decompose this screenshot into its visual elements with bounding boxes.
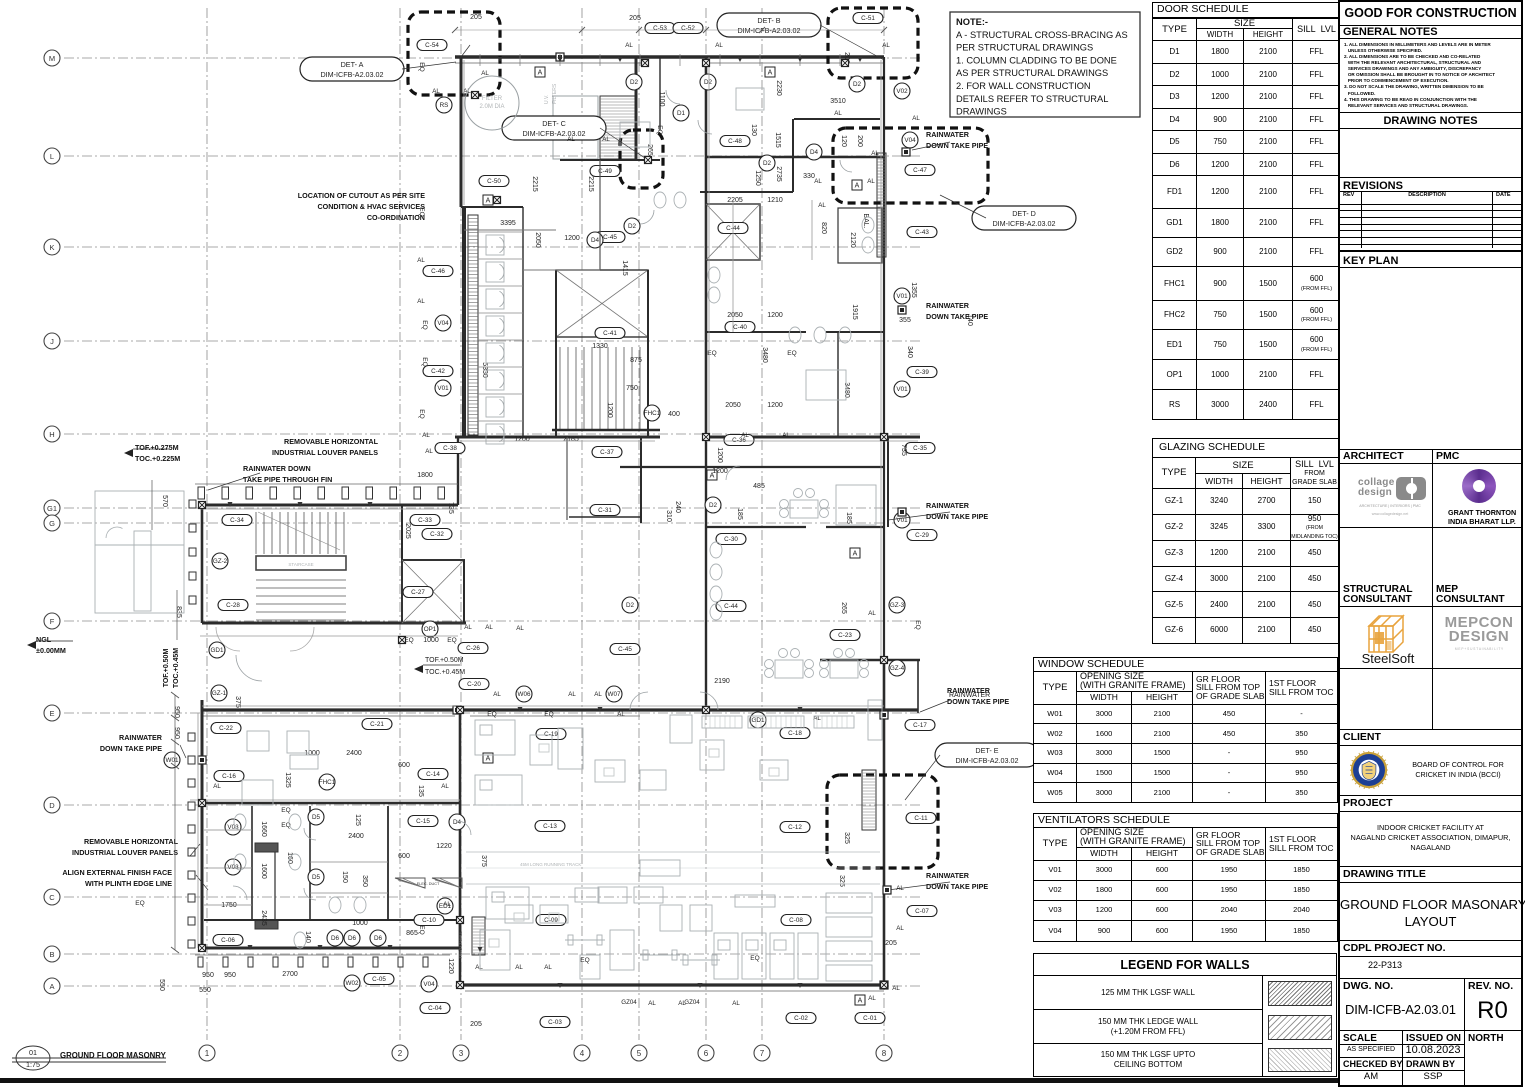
svg-text:AL: AL xyxy=(443,901,451,908)
svg-text:EQ: EQ xyxy=(281,807,290,814)
svg-text:RAINWATER: RAINWATER xyxy=(926,130,970,139)
svg-text:1600: 1600 xyxy=(260,863,267,879)
svg-text:K: K xyxy=(49,243,54,252)
svg-text:2: 2 xyxy=(398,1049,403,1058)
svg-text:U.V.: U.V. xyxy=(544,95,550,104)
svg-text:325: 325 xyxy=(843,832,850,844)
svg-text:DOWN TAKE PIPE: DOWN TAKE PIPE xyxy=(947,697,1009,706)
svg-text:GROUND FLOOR MASONRY: GROUND FLOOR MASONRY xyxy=(60,1051,167,1060)
svg-text:C-16: C-16 xyxy=(222,773,236,780)
svg-text:2435: 2435 xyxy=(260,910,267,926)
svg-text:375: 375 xyxy=(480,855,487,867)
svg-text:C-38: C-38 xyxy=(443,445,457,452)
svg-text:D4: D4 xyxy=(453,819,462,826)
svg-text:5: 5 xyxy=(637,1049,642,1058)
svg-text:LOCATION OF CUTOUT AS PER SITE: LOCATION OF CUTOUT AS PER SITE xyxy=(298,191,425,200)
svg-text:DET- C: DET- C xyxy=(542,119,566,128)
svg-text:C-05: C-05 xyxy=(372,976,386,983)
svg-text:D6: D6 xyxy=(331,935,340,942)
svg-text:C-46: C-46 xyxy=(431,268,445,275)
svg-text:D2: D2 xyxy=(704,79,713,86)
svg-text:W01: W01 xyxy=(166,757,179,764)
svg-text:D2: D2 xyxy=(853,81,862,88)
svg-text:A: A xyxy=(486,198,491,205)
svg-text:D2: D2 xyxy=(630,79,639,86)
svg-text:1200: 1200 xyxy=(767,402,783,409)
svg-text:265: 265 xyxy=(646,144,653,156)
svg-text:C-11: C-11 xyxy=(914,815,928,822)
svg-text:E: E xyxy=(49,709,54,718)
svg-text:950: 950 xyxy=(173,706,180,718)
svg-text:C-35: C-35 xyxy=(913,445,927,452)
svg-text:1:75: 1:75 xyxy=(26,1060,40,1069)
svg-text:265: 265 xyxy=(840,602,847,614)
svg-text:AL: AL xyxy=(417,298,425,305)
svg-text:AL: AL xyxy=(602,136,610,143)
svg-text:D6: D6 xyxy=(374,935,383,942)
svg-text:C-41: C-41 xyxy=(603,330,617,337)
svg-text:L: L xyxy=(50,152,54,161)
svg-text:ELEC. DUCT: ELEC. DUCT xyxy=(417,882,440,886)
svg-text:DOWN TAKE PIPE: DOWN TAKE PIPE xyxy=(926,141,988,150)
svg-text:C-51: C-51 xyxy=(861,15,875,22)
svg-text:C-04: C-04 xyxy=(428,1005,442,1012)
svg-text:835: 835 xyxy=(175,606,182,618)
svg-text:150: 150 xyxy=(341,871,348,883)
svg-text:EQ: EQ xyxy=(487,711,496,718)
svg-text:OP1: OP1 xyxy=(424,626,437,633)
svg-text:EQ: EQ xyxy=(447,637,456,644)
svg-text:AL: AL xyxy=(871,150,879,157)
svg-text:C-43: C-43 xyxy=(915,229,929,236)
svg-text:C-12: C-12 xyxy=(788,824,802,831)
svg-text:EQ: EQ xyxy=(750,955,759,962)
svg-text:INDUSTRIAL LOUVER PANELS: INDUSTRIAL LOUVER PANELS xyxy=(72,848,178,857)
svg-text:C-42: C-42 xyxy=(431,368,445,375)
svg-text:C-47: C-47 xyxy=(913,167,927,174)
svg-text:1210: 1210 xyxy=(767,197,783,204)
svg-text:A: A xyxy=(855,183,860,190)
svg-text:C-21: C-21 xyxy=(370,721,384,728)
svg-text:AL: AL xyxy=(867,178,875,185)
svg-text:1000: 1000 xyxy=(352,920,368,927)
svg-text:2400: 2400 xyxy=(346,750,362,757)
svg-text:2.0M DIA: 2.0M DIA xyxy=(479,104,504,110)
svg-text:INDUSTRIAL LOUVER PANELS: INDUSTRIAL LOUVER PANELS xyxy=(272,448,378,457)
svg-text:2050: 2050 xyxy=(725,402,741,409)
svg-text:2735: 2735 xyxy=(775,166,782,182)
svg-text:185: 185 xyxy=(736,508,743,520)
svg-text:DIM-ICFB-A2.03.02: DIM-ICFB-A2.03.02 xyxy=(992,219,1055,228)
svg-text:RAINWATER: RAINWATER xyxy=(947,686,991,695)
svg-text:TOF.+0.50M: TOF.+0.50M xyxy=(163,649,170,688)
svg-text:DOWN TAKE PIPE: DOWN TAKE PIPE xyxy=(926,512,988,521)
svg-text:C-03: C-03 xyxy=(548,1019,562,1026)
svg-text:AL: AL xyxy=(432,88,440,95)
svg-text:AL: AL xyxy=(882,42,890,49)
svg-text:G1: G1 xyxy=(47,504,57,513)
svg-text:TOF.+0.275M: TOF.+0.275M xyxy=(135,443,179,452)
svg-text:AL: AL xyxy=(648,1000,656,1007)
svg-text:F: F xyxy=(50,617,55,626)
svg-text:C-48: C-48 xyxy=(728,138,742,145)
svg-text:NGL: NGL xyxy=(36,635,52,644)
svg-text:AL: AL xyxy=(896,925,904,932)
svg-text:1200: 1200 xyxy=(767,312,783,319)
svg-text:GZ-2: GZ-2 xyxy=(213,558,228,565)
svg-text:875: 875 xyxy=(630,357,642,364)
svg-text:2190: 2190 xyxy=(714,678,730,685)
svg-text:AL: AL xyxy=(912,115,920,122)
svg-text:735: 735 xyxy=(447,502,454,514)
svg-text:TRNG LT WALL: TRNG LT WALL xyxy=(459,931,463,958)
svg-text:AL: AL xyxy=(493,691,501,698)
svg-text:G: G xyxy=(49,519,55,528)
svg-text:3510: 3510 xyxy=(830,98,846,105)
svg-text:1325: 1325 xyxy=(284,772,291,788)
svg-text:C-07: C-07 xyxy=(915,908,929,915)
svg-text:GD1: GD1 xyxy=(752,717,765,724)
svg-text:1750: 1750 xyxy=(221,902,237,909)
svg-text:1200: 1200 xyxy=(514,436,530,443)
svg-text:6: 6 xyxy=(704,1049,709,1058)
svg-text:DETAILS REFER TO STRUCTURAL: DETAILS REFER TO STRUCTURAL xyxy=(956,94,1108,104)
svg-text:AL: AL xyxy=(568,691,576,698)
svg-text:C-17: C-17 xyxy=(913,722,927,729)
svg-text:340: 340 xyxy=(906,346,913,358)
svg-text:1200: 1200 xyxy=(564,235,580,242)
svg-text:TOF.+0.50M: TOF.+0.50M xyxy=(425,657,464,664)
svg-text:RAINWATER DOWN: RAINWATER DOWN xyxy=(243,464,311,473)
svg-text:FILTER: FILTER xyxy=(482,96,503,102)
svg-text:01: 01 xyxy=(29,1048,37,1057)
svg-text:TAKE PIPE THROUGH FIN: TAKE PIPE THROUGH FIN xyxy=(243,475,332,484)
svg-text:AL: AL xyxy=(617,711,625,718)
svg-text:1330: 1330 xyxy=(592,343,608,350)
svg-text:AL: AL xyxy=(741,432,749,439)
svg-text:130: 130 xyxy=(750,124,757,136)
svg-text:C-52: C-52 xyxy=(681,25,695,32)
svg-text:185: 185 xyxy=(845,512,852,524)
svg-text:EQ: EQ xyxy=(656,125,663,134)
svg-text:550: 550 xyxy=(199,987,211,994)
svg-text:GZ-1: GZ-1 xyxy=(212,690,227,697)
svg-text:A: A xyxy=(486,756,491,763)
svg-text:330: 330 xyxy=(803,173,815,180)
svg-text:865: 865 xyxy=(406,930,418,937)
svg-text:C-44: C-44 xyxy=(724,603,738,610)
svg-text:C-40: C-40 xyxy=(733,324,747,331)
svg-text:DIM-ICFB-A2.03.02: DIM-ICFB-A2.03.02 xyxy=(737,26,800,35)
svg-text:C-13: C-13 xyxy=(543,823,557,830)
svg-text:550: 550 xyxy=(158,979,165,991)
svg-text:V01: V01 xyxy=(896,293,908,300)
svg-text:4: 4 xyxy=(580,1049,585,1058)
svg-text:1000: 1000 xyxy=(423,637,439,644)
svg-text:A: A xyxy=(768,70,773,77)
svg-text:C-01: C-01 xyxy=(863,1015,877,1022)
svg-text:C-06: C-06 xyxy=(221,937,235,944)
svg-text:EQ: EQ xyxy=(418,409,425,418)
svg-text:C-45: C-45 xyxy=(618,646,632,653)
svg-text:C-34: C-34 xyxy=(230,517,244,524)
svg-text:C-15: C-15 xyxy=(416,818,430,825)
svg-text:C-54: C-54 xyxy=(425,42,439,49)
svg-text:AL: AL xyxy=(516,625,524,632)
svg-text:AL: AL xyxy=(732,1000,740,1007)
svg-text:1200: 1200 xyxy=(712,468,728,475)
svg-text:WITH PLINTH EDGE LINE: WITH PLINTH EDGE LINE xyxy=(85,879,172,888)
svg-text:V01: V01 xyxy=(437,385,449,392)
svg-text:1. COLUMN CLADDING TO BE DONE: 1. COLUMN CLADDING TO BE DONE xyxy=(956,55,1117,65)
svg-text:C-22: C-22 xyxy=(219,725,233,732)
svg-text:EQ: EQ xyxy=(421,357,428,366)
svg-text:1: 1 xyxy=(205,1049,210,1058)
svg-text:C-23: C-23 xyxy=(838,632,852,639)
svg-text:1220: 1220 xyxy=(447,958,454,974)
svg-text:REMOVABLE HORIZONTAL: REMOVABLE HORIZONTAL xyxy=(284,437,379,446)
svg-text:3480: 3480 xyxy=(761,347,768,363)
svg-text:2120: 2120 xyxy=(849,232,856,248)
svg-text:AS PER STRUCTURAL DRAWINGS: AS PER STRUCTURAL DRAWINGS xyxy=(956,68,1108,78)
svg-text:RAINWATER: RAINWATER xyxy=(926,871,970,880)
svg-text:±0.00MM: ±0.00MM xyxy=(36,646,66,655)
svg-text:A: A xyxy=(49,982,54,991)
svg-text:2230: 2230 xyxy=(775,80,782,96)
svg-text:C-26: C-26 xyxy=(466,645,480,652)
svg-text:C-32: C-32 xyxy=(430,531,444,538)
svg-text:D4: D4 xyxy=(591,237,600,244)
svg-text:EQ: EQ xyxy=(580,957,589,964)
svg-text:2. FOR WALL CONSTRUCTION: 2. FOR WALL CONSTRUCTION xyxy=(956,81,1091,91)
svg-text:EQ: EQ xyxy=(418,925,425,934)
svg-text:325: 325 xyxy=(838,875,845,887)
svg-text:DET- D: DET- D xyxy=(1012,209,1036,218)
svg-text:205: 205 xyxy=(470,1021,482,1028)
svg-text:1220: 1220 xyxy=(436,843,452,850)
svg-text:950: 950 xyxy=(202,972,214,979)
svg-text:D2: D2 xyxy=(763,160,772,167)
svg-text:C-45: C-45 xyxy=(603,234,617,241)
svg-text:V01: V01 xyxy=(896,386,908,393)
svg-text:3480: 3480 xyxy=(843,382,850,398)
svg-text:1355: 1355 xyxy=(910,282,917,298)
svg-text:C-14: C-14 xyxy=(426,771,440,778)
svg-text:3: 3 xyxy=(459,1049,464,1058)
svg-text:B: B xyxy=(49,950,54,959)
svg-text:A: A xyxy=(858,998,863,1005)
svg-text:1250: 1250 xyxy=(754,170,761,186)
svg-text:AL: AL xyxy=(544,964,552,971)
svg-text:485: 485 xyxy=(753,483,765,490)
svg-text:C-20: C-20 xyxy=(467,681,481,688)
svg-text:2025: 2025 xyxy=(404,523,411,539)
svg-text:C-29: C-29 xyxy=(915,532,929,539)
svg-text:C-28: C-28 xyxy=(226,602,240,609)
svg-text:J: J xyxy=(50,337,54,346)
svg-text:D: D xyxy=(49,801,55,810)
svg-text:H: H xyxy=(49,430,54,439)
svg-text:3395: 3395 xyxy=(500,220,516,227)
svg-text:1000: 1000 xyxy=(304,750,320,757)
svg-text:DET- A: DET- A xyxy=(341,60,364,69)
svg-text:DIM-ICFB-A2.03.02: DIM-ICFB-A2.03.02 xyxy=(955,756,1018,765)
svg-text:A - STRUCTURAL CROSS-BRACING A: A - STRUCTURAL CROSS-BRACING AS xyxy=(956,30,1128,40)
svg-text:AL: AL xyxy=(892,985,900,992)
svg-text:C-37: C-37 xyxy=(600,449,614,456)
svg-text:2050: 2050 xyxy=(534,232,541,248)
svg-text:D1: D1 xyxy=(677,110,686,117)
svg-text:DIM-ICFB-A2.03.02: DIM-ICFB-A2.03.02 xyxy=(320,70,383,79)
svg-text:AL: AL xyxy=(417,257,425,264)
svg-text:C-27: C-27 xyxy=(411,589,425,596)
svg-text:AL: AL xyxy=(422,432,430,439)
svg-text:C-53: C-53 xyxy=(653,25,667,32)
svg-text:AL: AL xyxy=(425,448,433,455)
svg-text:125: 125 xyxy=(354,814,361,826)
svg-text:TOC.+0.45M: TOC.+0.45M xyxy=(173,648,180,688)
svg-text:D5: D5 xyxy=(312,814,321,821)
svg-text:AL: AL xyxy=(515,964,523,971)
svg-text:AL: AL xyxy=(715,42,723,49)
svg-text:AL: AL xyxy=(868,995,876,1002)
svg-text:C-10: C-10 xyxy=(422,917,436,924)
svg-text:400: 400 xyxy=(668,411,680,418)
svg-text:C: C xyxy=(49,893,55,902)
svg-text:FHC1: FHC1 xyxy=(644,410,661,417)
svg-text:DET- B: DET- B xyxy=(757,16,780,25)
svg-text:1515: 1515 xyxy=(774,132,781,148)
svg-text:EQ: EQ xyxy=(544,711,553,718)
svg-text:AL: AL xyxy=(818,202,826,209)
svg-text:DOWN TAKE PIPE: DOWN TAKE PIPE xyxy=(926,882,988,891)
svg-text:CONDITION & HVAC SERVICES: CONDITION & HVAC SERVICES xyxy=(317,202,425,211)
svg-text:45M LONG RUNNING TRACK: 45M LONG RUNNING TRACK xyxy=(520,862,581,867)
svg-text:W06: W06 xyxy=(518,691,531,698)
svg-text:RAINWATER: RAINWATER xyxy=(926,301,970,310)
svg-text:PER STRUCTURAL DRAWINGS: PER STRUCTURAL DRAWINGS xyxy=(956,43,1093,53)
svg-text:1100: 1100 xyxy=(658,91,665,106)
svg-text:V04: V04 xyxy=(437,320,449,327)
svg-text:7: 7 xyxy=(760,1049,765,1058)
svg-text:V02: V02 xyxy=(896,88,908,95)
svg-text:AL: AL xyxy=(464,624,472,631)
svg-text:D5: D5 xyxy=(312,874,321,881)
svg-text:AL: AL xyxy=(782,432,790,439)
svg-text:DOWN TAKE PIPE: DOWN TAKE PIPE xyxy=(100,744,162,753)
svg-text:C-39: C-39 xyxy=(915,369,929,376)
svg-text:V04: V04 xyxy=(904,137,916,144)
svg-text:EQ: EQ xyxy=(135,900,144,907)
svg-text:1200: 1200 xyxy=(716,447,723,463)
svg-text:135: 135 xyxy=(417,785,424,797)
svg-text:STAIRCASE: STAIRCASE xyxy=(288,562,313,567)
svg-text:D2: D2 xyxy=(628,223,637,230)
svg-text:205: 205 xyxy=(470,14,482,21)
svg-text:DET- E: DET- E xyxy=(975,746,998,755)
svg-text:2400: 2400 xyxy=(348,833,364,840)
svg-text:EQ: EQ xyxy=(914,620,921,629)
svg-text:950: 950 xyxy=(173,727,180,739)
svg-text:140: 140 xyxy=(304,931,311,943)
svg-text:AL: AL xyxy=(868,610,876,617)
svg-text:CO-ORDINATION: CO-ORDINATION xyxy=(367,213,425,222)
svg-text:AL: AL xyxy=(213,783,221,790)
svg-text:W07: W07 xyxy=(608,691,621,698)
svg-text:C-02: C-02 xyxy=(794,1015,808,1022)
svg-text:AL: AL xyxy=(441,783,449,790)
svg-text:C-50: C-50 xyxy=(487,178,501,185)
svg-text:8: 8 xyxy=(882,1049,887,1058)
svg-text:D4: D4 xyxy=(810,149,819,156)
svg-text:A: A xyxy=(853,551,858,558)
svg-text:350: 350 xyxy=(361,875,368,887)
svg-text:570: 570 xyxy=(161,495,168,507)
svg-text:2050: 2050 xyxy=(727,312,743,319)
svg-text:600: 600 xyxy=(398,853,410,860)
svg-text:2205: 2205 xyxy=(727,197,743,204)
svg-text:RAINWATER: RAINWATER xyxy=(926,501,970,510)
svg-text:205: 205 xyxy=(885,940,897,947)
svg-text:AL: AL xyxy=(834,110,842,117)
svg-text:2215: 2215 xyxy=(587,176,594,192)
svg-text:1200: 1200 xyxy=(606,402,613,418)
svg-text:AL: AL xyxy=(814,178,822,185)
svg-text:V04: V04 xyxy=(423,981,435,988)
svg-text:200: 200 xyxy=(856,135,863,147)
svg-text:REMOVABLE HORIZONTAL: REMOVABLE HORIZONTAL xyxy=(84,837,179,846)
svg-text:TOC.+0.45M: TOC.+0.45M xyxy=(425,669,465,676)
svg-text:C-18: C-18 xyxy=(788,730,802,737)
svg-text:A: A xyxy=(538,70,543,77)
svg-text:D2: D2 xyxy=(709,502,718,509)
svg-text:DIM-ICFB-A2.03.02: DIM-ICFB-A2.03.02 xyxy=(522,129,585,138)
svg-text:D6: D6 xyxy=(348,935,357,942)
svg-text:2215: 2215 xyxy=(531,176,538,192)
svg-text:2185: 2185 xyxy=(563,436,579,443)
svg-text:240: 240 xyxy=(674,501,681,513)
svg-text:GZ-3: GZ-3 xyxy=(890,602,905,609)
svg-text:TOC.+0.225M: TOC.+0.225M xyxy=(135,454,180,463)
svg-text:FILTERS: FILTERS xyxy=(552,83,558,104)
svg-text:D2: D2 xyxy=(626,602,635,609)
svg-text:FHC1: FHC1 xyxy=(319,779,336,786)
svg-text:1915: 1915 xyxy=(851,304,858,320)
svg-text:355: 355 xyxy=(899,317,911,324)
svg-text:M: M xyxy=(49,54,55,63)
svg-text:C-30: C-30 xyxy=(724,536,738,543)
svg-text:1415: 1415 xyxy=(621,260,628,276)
svg-text:310: 310 xyxy=(665,510,672,522)
svg-text:ALIGN EXTERNAL FINISH FACE: ALIGN EXTERNAL FINISH FACE xyxy=(62,868,172,877)
svg-text:120: 120 xyxy=(840,135,847,147)
svg-text:DRAWINGS: DRAWINGS xyxy=(956,107,1007,117)
svg-text:GD1: GD1 xyxy=(211,647,224,654)
svg-text:EQ: EQ xyxy=(421,320,428,329)
svg-text:RAINWATER: RAINWATER xyxy=(119,733,163,742)
svg-text:AL: AL xyxy=(567,136,575,143)
svg-text:AL: AL xyxy=(485,624,493,631)
svg-text:750: 750 xyxy=(626,385,638,392)
svg-text:NOTE:-: NOTE:- xyxy=(956,17,988,27)
svg-text:1800: 1800 xyxy=(417,472,433,479)
svg-text:735: 735 xyxy=(900,444,907,456)
svg-text:RS: RS xyxy=(440,102,449,109)
svg-text:DOWN TAKE PIPE: DOWN TAKE PIPE xyxy=(926,312,988,321)
svg-text:205: 205 xyxy=(629,15,641,22)
svg-text:1660: 1660 xyxy=(260,821,267,837)
svg-text:GZ04: GZ04 xyxy=(621,999,637,1006)
